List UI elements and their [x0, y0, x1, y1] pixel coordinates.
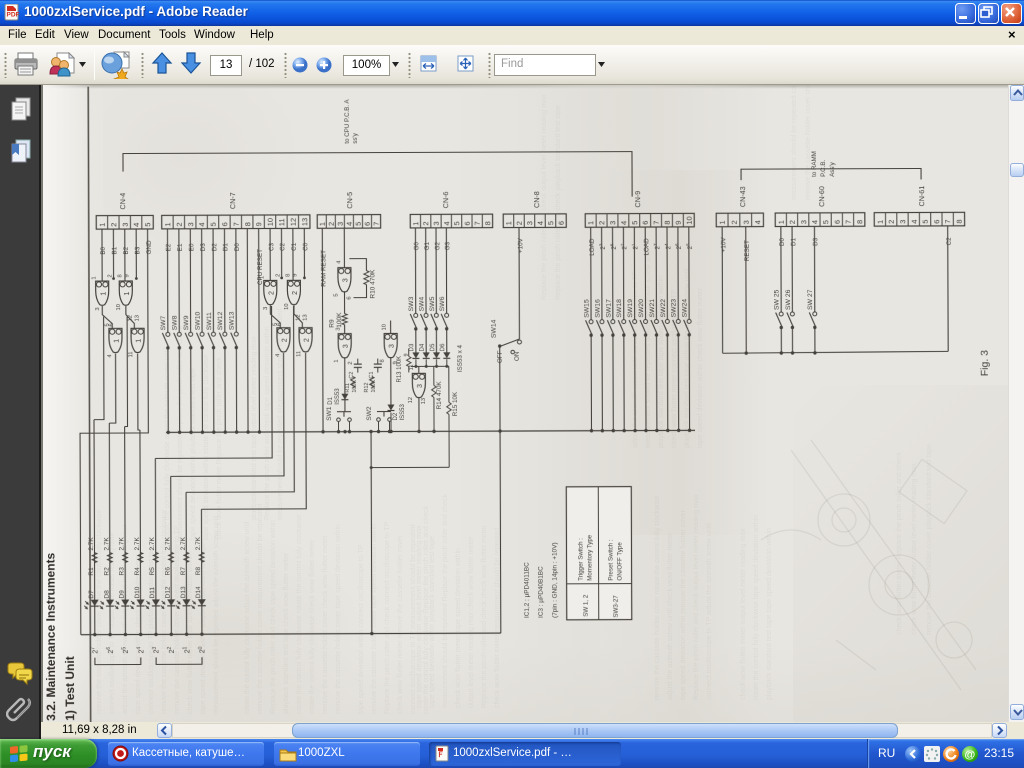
svg-text:R8: R8: [195, 567, 202, 576]
svg-text:CN-43: CN-43: [738, 186, 747, 207]
svg-text:D14: D14: [195, 586, 202, 598]
svg-text:D1: D1: [790, 237, 797, 246]
diode D1 ISS53: [328, 388, 349, 405]
gate IC1d: [128, 315, 145, 358]
switch SW21: [649, 299, 659, 337]
switch SW22: [660, 299, 670, 337]
svg-text:2: 2: [730, 220, 739, 224]
wire B1: [112, 229, 114, 278]
svg-text:to CPU P.C.B. A: to CPU P.C.B. A: [344, 99, 351, 144]
svg-text:measurement should be repeated: measurement should be repeated Replace t…: [442, 493, 449, 708]
svg-text:7: 7: [844, 220, 853, 224]
connector CN-60: [775, 186, 865, 227]
svg-text:4: 4: [132, 223, 141, 227]
svg-text:R10 470K: R10 470K: [369, 269, 376, 299]
svg-text:23: 23: [598, 243, 607, 250]
svg-text:11: 11: [296, 351, 302, 357]
switch SW14: [491, 319, 522, 363]
svg-text:R6: R6: [165, 567, 172, 576]
wire indicator column 3: [124, 427, 127, 635]
svg-text:2: 2: [304, 338, 311, 342]
switch SW8: [172, 315, 182, 349]
svg-text:SW24: SW24: [682, 299, 689, 318]
svg-text:2: 2: [597, 221, 606, 225]
LED D10: [130, 586, 145, 609]
svg-text:25: 25: [685, 243, 694, 250]
svg-text:SW3: SW3: [408, 296, 415, 311]
svg-text:2.7K: 2.7K: [164, 536, 171, 550]
svg-text:E1: E1: [177, 243, 184, 251]
connector CN-7: [162, 192, 310, 229]
svg-text:3: 3: [525, 221, 534, 225]
svg-text:CN-8: CN-8: [532, 191, 541, 208]
svg-text:100K: 100K: [352, 379, 358, 392]
svg-text:rotate the control fully clock: rotate the control fully clockwise adjus…: [244, 521, 251, 714]
svg-text:100K: 100K: [336, 312, 343, 328]
svg-text:6: 6: [277, 323, 283, 326]
svg-text:tape speed deviation within pl: tape speed deviation within playback sta…: [429, 536, 436, 708]
svg-text:2: 2: [515, 221, 524, 225]
svg-text:R13 100K: R13 100K: [397, 356, 403, 383]
svg-text:2: 2: [887, 220, 896, 224]
gate IC2d: [296, 314, 313, 357]
wire indicator column 7: [185, 492, 188, 634]
svg-text:CN-60: CN-60: [817, 186, 826, 207]
svg-text:1: 1: [114, 339, 121, 343]
svg-text:3: 3: [417, 384, 424, 388]
svg-text:2.7K: 2.7K: [195, 536, 202, 550]
svg-text:3: 3: [95, 307, 101, 310]
page left margin rule (decorative): [88, 87, 90, 724]
svg-text:R9: R9: [329, 319, 336, 328]
switch SW15: [583, 299, 593, 337]
svg-text:ISS53 x 4: ISS53 x 4: [457, 344, 464, 372]
svg-text:5: 5: [143, 223, 152, 227]
svg-text:tape speed deviation within co: tape speed deviation within connect osci…: [358, 544, 365, 714]
connector CN-4: [96, 193, 153, 229]
svg-text:D9: D9: [119, 590, 126, 599]
svg-text:4: 4: [619, 221, 628, 225]
svg-text:3: 3: [186, 222, 195, 226]
svg-text:G1: G1: [424, 241, 431, 250]
svg-text:C1: C1: [291, 242, 298, 251]
junction pin 5 bus: [212, 430, 215, 433]
svg-text:6: 6: [363, 222, 372, 226]
svg-text:D8: D8: [103, 590, 110, 599]
svg-text:9: 9: [292, 274, 298, 277]
svg-text:10: 10: [116, 304, 122, 310]
net label to CPU P.C.B. Assy: [344, 99, 359, 144]
wire SW14 out: [500, 346, 501, 633]
junction column 8: [200, 633, 203, 636]
legend table switch types: [566, 487, 632, 620]
wire IC2b out: [294, 305, 302, 327]
wire CN-9 pin 6: [644, 227, 646, 319]
svg-text:3: 3: [336, 327, 342, 330]
svg-text:1: 1: [136, 339, 143, 343]
wire B3: [135, 229, 137, 278]
switch SW26: [785, 289, 795, 329]
svg-text:1: 1: [334, 359, 340, 362]
junction SW27: [813, 351, 816, 354]
svg-text:D2: D2: [393, 412, 399, 420]
switch SW6: [439, 296, 449, 330]
svg-text:1: 1: [777, 220, 786, 224]
switch SW7: [160, 315, 170, 349]
wire center drop: [370, 432, 373, 634]
wire CN-9 pin 1: [590, 227, 592, 319]
svg-text:remove the cassette holder cov: remove the cassette holder cover tape sp…: [335, 524, 342, 714]
svg-text:7: 7: [473, 221, 482, 225]
svg-text:SW 1, 2: SW 1, 2: [583, 594, 590, 617]
junction pin 4 bus: [201, 431, 204, 434]
junction pin 1 bus: [167, 431, 170, 434]
wire main bus: [166, 430, 695, 432]
svg-text:3: 3: [121, 223, 130, 227]
wire to indicator column 6: [170, 353, 284, 476]
wire D line 27: [813, 226, 815, 311]
svg-text:+10V: +10V: [720, 237, 727, 253]
svg-text:tape speed deviation within re: tape speed deviation within remove the c…: [680, 509, 687, 700]
resistor R3 2.7K: [119, 536, 128, 575]
svg-text:1: 1: [163, 222, 172, 226]
wire IC3d out: [418, 397, 420, 431]
wire C2: [280, 228, 282, 277]
resistor R11 100K: [345, 377, 358, 393]
svg-text:SW23: SW23: [671, 299, 678, 318]
svg-text:Replace the pinch roller and c: Replace the pinch roller and check playb…: [555, 105, 562, 300]
svg-text:CN-61: CN-61: [917, 186, 926, 207]
svg-text:4: 4: [910, 220, 919, 224]
diode D4: [420, 343, 430, 366]
svg-text:1: 1: [100, 292, 107, 296]
svg-text:2.7K: 2.7K: [119, 537, 126, 551]
junction column 7: [185, 633, 188, 636]
wire group bracket low nibble: [156, 657, 202, 664]
node D0 D1 D3 labels: [779, 237, 820, 246]
svg-text:1: 1: [586, 221, 595, 225]
svg-text:4: 4: [442, 221, 451, 225]
wire indicator column 2: [108, 423, 111, 634]
svg-text:Preset Switch :: Preset Switch :: [607, 539, 614, 581]
wire C2: [947, 226, 949, 351]
svg-text:4: 4: [810, 220, 819, 224]
svg-text:R3: R3: [119, 567, 126, 576]
svg-text:8: 8: [955, 219, 964, 223]
svg-text:SW9: SW9: [183, 315, 190, 330]
gate IC2c: [273, 323, 290, 357]
LED D11: [145, 587, 160, 609]
svg-text:tape speed deviation within ch: tape speed deviation within check wow fl…: [697, 287, 704, 448]
svg-text:remove the cassette holder cov: remove the cassette holder cover check w…: [805, 85, 812, 200]
svg-text:6: 6: [557, 221, 566, 225]
node C3-C0 labels: [268, 242, 309, 251]
diode D2 ISS53: [387, 403, 406, 433]
svg-text:remove the cassette holder cov: remove the cassette holder cover check w…: [322, 534, 329, 714]
svg-text:SW15: SW15: [583, 299, 590, 318]
switch SW25: [774, 289, 784, 329]
wire indicator column 4: [139, 430, 142, 634]
capacitor C1: [369, 359, 382, 379]
connector CN-43: [716, 186, 763, 226]
resistor R9 100K: [329, 291, 348, 334]
svg-text:5: 5: [334, 293, 340, 296]
svg-text:B3: B3: [134, 246, 141, 254]
svg-text:5: 5: [921, 220, 930, 224]
svg-text:7: 7: [372, 222, 381, 226]
wire CN-9 pin 4: [622, 227, 624, 319]
svg-text:1: 1: [718, 220, 727, 224]
svg-text:2: 2: [109, 223, 118, 227]
switch SW17: [605, 299, 615, 337]
svg-text:measurement should be repeated: measurement should be repeated rotate th…: [791, 85, 798, 200]
resistor R1 2.7K: [88, 537, 97, 576]
svg-text:Replace the pinch roller and c: Replace the pinch roller and check tape …: [264, 326, 271, 520]
svg-text:GND: GND: [146, 240, 153, 254]
svg-text:2.7K: 2.7K: [88, 537, 95, 551]
junction pin 3 bus: [189, 431, 192, 434]
svg-text:C3: C3: [268, 242, 275, 251]
svg-text:SW3-27: SW3-27: [613, 595, 620, 618]
svg-text:Fig. 3: Fig. 3: [979, 350, 991, 376]
svg-text:Replace the pinch roller and c: Replace the pinch roller and check outpu…: [541, 94, 548, 300]
wire CN-9 pin 7: [655, 227, 657, 319]
junction CN-9 pin 9: [677, 429, 680, 432]
svg-text:tape speed deviation within ou: tape speed deviation within output level…: [416, 525, 423, 708]
wire B2: [124, 229, 126, 281]
wire E/D line pin 5: [212, 229, 214, 332]
svg-text:8: 8: [663, 221, 672, 225]
svg-text:D3: D3: [813, 237, 820, 246]
svg-text:2: 2: [292, 291, 299, 295]
switch SW1: [326, 406, 351, 433]
svg-text:7: 7: [652, 221, 661, 225]
svg-text:2.7K: 2.7K: [103, 537, 110, 551]
svg-text:10: 10: [284, 303, 290, 309]
wire CPU RESET: [258, 229, 261, 432]
wire CN-5 pin3: [343, 228, 345, 267]
svg-text:6: 6: [932, 220, 941, 224]
wire G0: [414, 228, 416, 313]
junction column 1: [93, 633, 96, 636]
svg-text:connect oscilloscope to TP mea: connect oscilloscope to TP measurement s…: [410, 524, 417, 714]
svg-text:6: 6: [463, 221, 472, 225]
svg-text:D1: D1: [328, 396, 334, 404]
svg-text:remove the cassette holder cov: remove the cassette holder cover measure…: [257, 504, 264, 714]
wire IC2a out: [270, 305, 280, 327]
wire E/D line pin 3: [189, 229, 191, 332]
svg-text:D13: D13: [180, 586, 187, 598]
wire C1: [292, 228, 294, 280]
svg-text:1: 1: [411, 222, 420, 226]
svg-text:Replace the pinch roller and c: Replace the pinch roller and check check…: [481, 524, 488, 708]
svg-text:playback standard test tape ch: playback standard test tape check wow fl…: [283, 552, 290, 714]
svg-text:PDF: PDF: [7, 12, 20, 19]
svg-text:D3: D3: [200, 243, 207, 252]
svg-text:3.2. Maintenance Instruments: 3.2. Maintenance Instruments: [44, 552, 59, 720]
svg-text:Ass'y: Ass'y: [829, 161, 836, 177]
resistor R6 2.7K: [164, 536, 173, 575]
junction G2: [435, 365, 438, 368]
svg-text:2: 2: [269, 291, 276, 295]
svg-text:7: 7: [943, 219, 952, 223]
svg-text:rotate the control fully clock: rotate the control fully clockwise tape …: [753, 515, 760, 700]
svg-text:27: 27: [653, 243, 662, 250]
svg-text:3: 3: [742, 220, 751, 224]
junction G1: [425, 365, 428, 368]
net label to RAMM P.C.B. Assy: [811, 151, 836, 177]
wire GND: [79, 229, 149, 635]
svg-text:B1: B1: [111, 246, 118, 254]
svg-text:13: 13: [135, 315, 141, 321]
resistor R14 470K: [432, 366, 443, 433]
svg-text:11: 11: [128, 351, 134, 357]
svg-text:7: 7: [232, 222, 241, 226]
svg-text:SW13: SW13: [229, 311, 236, 330]
wire diode bus: [411, 365, 449, 367]
wire RAM RESET pin: [321, 228, 324, 431]
junction column 5: [154, 633, 157, 636]
svg-text:check wow flutter meter output: check wow flutter meter output level met…: [740, 528, 747, 700]
svg-text:D0: D0: [779, 237, 786, 246]
svg-text:R4: R4: [134, 567, 141, 576]
svg-text:1) Test Unit: 1) Test Unit: [63, 656, 77, 721]
svg-text:10: 10: [685, 216, 694, 224]
svg-text:2: 2: [327, 222, 336, 226]
svg-text:4: 4: [753, 220, 762, 224]
svg-text:SW7: SW7: [160, 315, 167, 330]
svg-text:rotate the control fully clock: rotate the control fully clockwise check…: [309, 539, 316, 714]
svg-text:D7: D7: [88, 590, 95, 599]
svg-text:to RAMM: to RAMM: [811, 151, 818, 177]
svg-text:2: 2: [275, 274, 281, 277]
junction G0: [414, 365, 417, 368]
svg-text:remove the cassette holder cov: remove the cassette holder cover rotate …: [654, 496, 661, 700]
junction CN-9 pin 5: [633, 429, 636, 432]
gate IC3a: [333, 260, 352, 300]
wire G3: [445, 228, 447, 313]
wire pin8: [246, 229, 249, 432]
svg-text:ISS53: ISS53: [400, 403, 406, 420]
gate IC3b: [334, 327, 354, 364]
wire D line 26: [791, 226, 793, 311]
svg-text:playback standard test tape ta: playback standard test tape tape speed d…: [766, 528, 773, 700]
wire CN-9 pin 5: [633, 227, 635, 319]
svg-text:3: 3: [343, 278, 350, 282]
junction pin 6 bus: [224, 430, 227, 433]
wire group bracket high nibble: [95, 657, 141, 664]
svg-text:4: 4: [536, 221, 545, 225]
resistor R8 2.7K: [195, 536, 204, 575]
svg-text:3: 3: [336, 222, 345, 226]
svg-text:1: 1: [98, 223, 107, 227]
svg-text:5: 5: [630, 221, 639, 225]
wire indicator column 1: [93, 420, 96, 635]
wire IC3b out: [344, 357, 346, 411]
svg-text:Replace the pinch roller and c: Replace the pinch roller and check outpu…: [693, 494, 700, 700]
svg-text:D5: D5: [430, 343, 436, 351]
svg-text:R1: R1: [88, 567, 95, 576]
svg-text:SW8: SW8: [172, 315, 179, 330]
svg-text:SW 27: SW 27: [807, 289, 814, 310]
svg-text:23: 23: [152, 646, 161, 653]
wire indicator column 8: [200, 509, 202, 634]
wire +10V right: [721, 227, 723, 353]
svg-text:5: 5: [452, 221, 461, 225]
LED D9: [115, 590, 130, 609]
gate IC3c: [380, 324, 399, 365]
svg-text:8: 8: [117, 274, 123, 277]
switch SW4: [418, 296, 428, 330]
svg-text:ON: ON: [514, 351, 521, 361]
svg-text:CN-7: CN-7: [228, 192, 237, 209]
connector CN-61: [874, 186, 965, 227]
switch SW23: [671, 299, 681, 337]
svg-text:6: 6: [641, 221, 650, 225]
wire C0: [303, 228, 305, 277]
connector CN-6: [410, 191, 493, 228]
junction CN-9 pin 8: [666, 429, 669, 432]
svg-text:RESET: RESET: [744, 240, 751, 261]
svg-text:SW12: SW12: [217, 311, 224, 330]
svg-text:5: 5: [546, 221, 555, 225]
svg-text:R11: R11: [345, 383, 351, 393]
svg-text:D10: D10: [134, 586, 141, 598]
switch SW2: [366, 406, 391, 433]
svg-text:output level meter reading max: output level meter reading max check wow…: [468, 536, 475, 708]
node CN-9 signal labels: [589, 238, 694, 256]
svg-text:E0: E0: [188, 243, 195, 251]
svg-text:SW4: SW4: [418, 296, 425, 311]
svg-text:22: 22: [620, 243, 629, 250]
svg-text:SW18: SW18: [616, 299, 623, 318]
LED D7: [84, 590, 99, 609]
svg-text:B2: B2: [123, 246, 130, 254]
wire CN-9 pin 10: [688, 227, 690, 319]
switch SW20: [638, 299, 648, 337]
resistor R12 100K: [364, 377, 377, 393]
switch SW3: [408, 296, 418, 330]
svg-text:D0: D0: [234, 243, 241, 252]
svg-text:3: 3: [898, 220, 907, 224]
svg-text:2: 2: [282, 338, 289, 342]
LED D8: [99, 590, 114, 609]
wire to indicator column 2: [109, 354, 116, 424]
svg-text:6: 6: [833, 220, 842, 224]
node CN-4 signal labels B0-B3, GND: [100, 240, 153, 255]
gate IC1b: [116, 274, 132, 310]
svg-text:R7: R7: [180, 567, 187, 576]
svg-text:24: 24: [136, 647, 145, 654]
svg-text:check wow flutter meter measur: check wow flutter meter measurement shou…: [494, 528, 501, 708]
svg-text:1: 1: [504, 221, 513, 225]
junction CN-9 pin 6: [644, 429, 647, 432]
svg-text:connect oscilloscope to TP adj: connect oscilloscope to TP adjust the az…: [706, 523, 713, 700]
svg-text:2.7K: 2.7K: [180, 536, 187, 550]
svg-text:4: 4: [107, 354, 113, 358]
wire to indicator column 4: [138, 353, 140, 430]
svg-text:D2: D2: [211, 243, 218, 252]
svg-text:ISS53: ISS53: [335, 388, 341, 405]
svg-text:R14 470K: R14 470K: [436, 381, 443, 410]
svg-text:LOAD: LOAD: [589, 238, 596, 256]
svg-text:3: 3: [343, 344, 350, 348]
svg-text:3: 3: [432, 221, 441, 225]
wire to indicator column 7: [185, 306, 294, 492]
svg-text:1: 1: [259, 276, 265, 279]
switch SW9: [183, 315, 193, 349]
svg-text:SW5: SW5: [429, 296, 436, 311]
